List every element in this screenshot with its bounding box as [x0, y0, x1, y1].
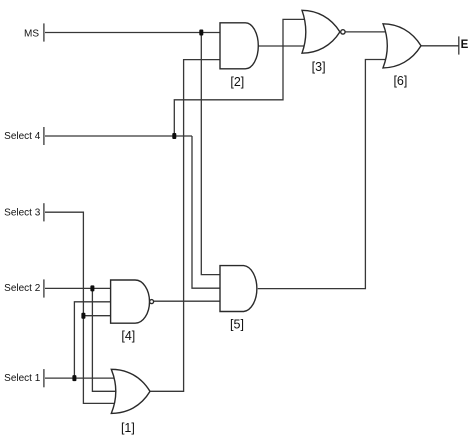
junction dot on Select 3 vertical — [81, 313, 85, 319]
wire gate 1 output up to gate 2 input 2 — [150, 60, 220, 392]
and-gate [5] — [220, 266, 257, 312]
svg-text:[4]: [4] — [121, 329, 135, 343]
junction dot on Select 1 line — [72, 375, 76, 381]
nor-gate [3] body — [302, 10, 340, 53]
junction dot on Select 4 line — [172, 133, 176, 139]
tick mark Select 4 terminal — [43, 127, 45, 145]
and-gate [2] — [220, 23, 258, 69]
nor-gate [3] bubble — [341, 30, 345, 34]
wire gate 4 output to gate 5 input 3 — [154, 300, 220, 302]
wire Select 3 input line down to gate 1 input 3 — [45, 212, 116, 403]
wire gate 6 output to E — [421, 45, 459, 47]
wire Select 2 input line to gate 4 input 1 — [45, 287, 111, 289]
svg-text:Select 3: Select 3 — [4, 208, 41, 219]
wire Select 1 branch up to gate 4 input 2 — [74, 302, 110, 378]
junction dot on MS line — [199, 30, 203, 36]
tick mark E terminal — [458, 36, 460, 54]
tick mark MS terminal — [43, 23, 45, 41]
wire Select 4 branch up and over to gate 3 input 1 — [174, 19, 306, 136]
svg-text:[6]: [6] — [393, 74, 407, 88]
svg-text:[2]: [2] — [230, 75, 244, 89]
wire Select 4 branch down to gate 5 input 2 — [192, 136, 220, 288]
wire Select 4 input line — [45, 135, 192, 137]
or-gate [1] — [111, 369, 150, 413]
wire MS branch down to gate 5 input 1 — [201, 33, 220, 275]
svg-text:Select 1: Select 1 — [4, 373, 41, 384]
tick mark Select 1 terminal — [43, 369, 45, 387]
wire gate 3 output to gate 6 input 1 — [345, 31, 388, 33]
nand-gate [4] body — [111, 280, 150, 323]
wire Select 2 branch down to gate 1 input 2 — [92, 288, 122, 391]
svg-text:[3]: [3] — [312, 60, 326, 74]
wire gate 5 output up to gate 6 input 2 — [258, 60, 387, 289]
svg-text:MS: MS — [24, 29, 39, 40]
svg-text:E: E — [461, 39, 469, 51]
wire Select 3 branch to gate 4 input 3 — [83, 315, 110, 317]
tick mark Select 3 terminal — [43, 203, 45, 221]
wire Select 1 input line to gate 1 input 1 — [45, 377, 115, 379]
tick mark Select 2 terminal — [43, 279, 45, 297]
wire MS input line — [45, 32, 220, 34]
nand-gate [4] bubble — [150, 300, 154, 304]
svg-text:[5]: [5] — [230, 318, 244, 332]
junction dot on Select 2 line — [90, 285, 94, 291]
svg-text:Select 4: Select 4 — [4, 131, 41, 142]
svg-text:Select 2: Select 2 — [4, 283, 41, 294]
wire gate 2 output to gate 3 input 2 — [258, 45, 307, 47]
or-gate [6] — [383, 24, 421, 68]
svg-text:[1]: [1] — [121, 421, 135, 435]
